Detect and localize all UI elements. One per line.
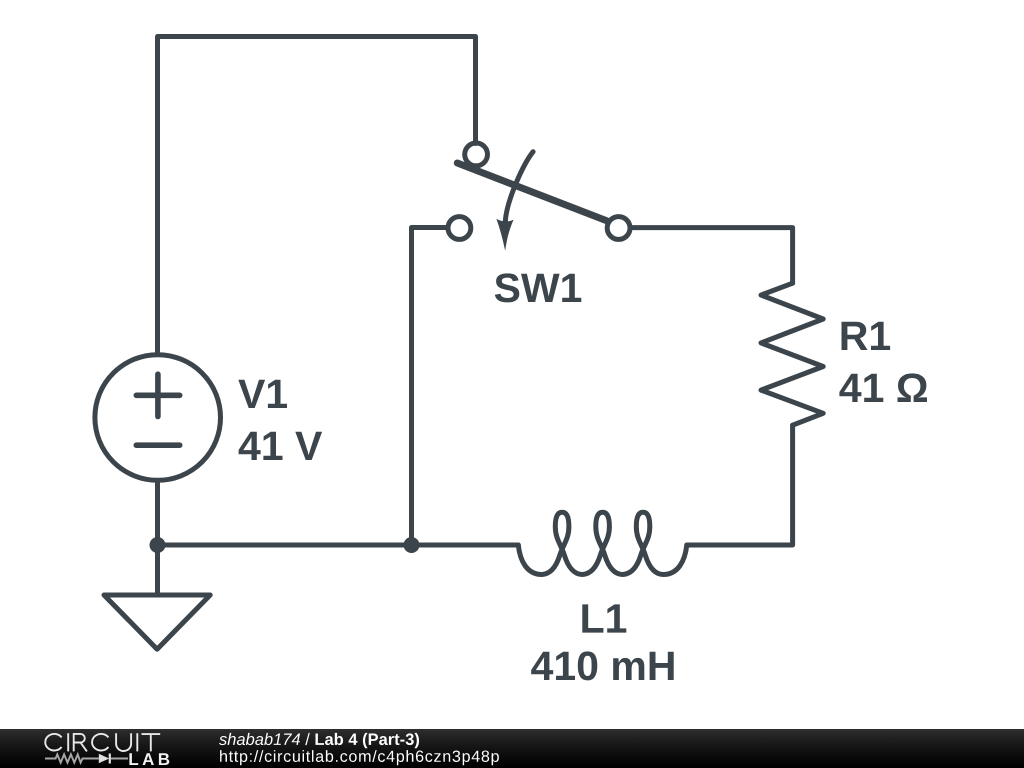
logo letter U <box>116 733 131 751</box>
wire: SW1 right terminal to R1 <box>632 228 793 284</box>
footer text: schematic url <box>220 750 499 765</box>
logo letter I (second) <box>136 733 138 751</box>
switch SW1 throw terminal circle <box>448 217 471 240</box>
label V1 <box>238 380 287 408</box>
ground stem wire <box>155 545 160 595</box>
label SW1 <box>495 273 582 302</box>
ground symbol <box>104 595 210 649</box>
wire: bottom rail from ground node to inductor <box>158 543 519 548</box>
logo letter C <box>45 734 61 751</box>
resistor R1 zigzag <box>761 283 823 425</box>
node junction at SW1 branch <box>404 537 420 553</box>
switch SW1 arrow head <box>496 219 513 251</box>
logo diode bar <box>109 754 111 764</box>
switch SW1 throw arrow arc <box>505 152 533 222</box>
V1 minus sign <box>136 442 179 448</box>
label R1 <box>842 322 891 350</box>
inductor L1 coil <box>518 512 687 574</box>
logo LAB wordmark <box>129 753 169 765</box>
label L1 <box>582 604 626 632</box>
value 410 mH <box>531 651 674 680</box>
wire: V1 bottom to ground node <box>155 481 160 546</box>
logo letter T <box>142 734 161 751</box>
wire: V1 top to SW1 common terminal <box>158 37 476 353</box>
value 41 V <box>239 432 323 460</box>
V1 plus sign <box>136 374 179 416</box>
logo letter C (second) <box>92 734 108 751</box>
logo letter I <box>67 733 69 751</box>
node junction at V1 bottom <box>150 537 166 553</box>
logo resistor zigzag <box>45 754 128 762</box>
logo diode <box>99 754 109 763</box>
switch SW1 common terminal circle <box>465 143 488 166</box>
switch SW1 blade <box>457 163 607 221</box>
value 41 Ω <box>839 373 927 402</box>
logo letter R <box>74 734 87 752</box>
voltage source V1 <box>95 355 221 481</box>
wire: node up to SW1 throw terminal <box>412 228 447 546</box>
wire: R1 bottom to inductor right lead <box>687 425 793 545</box>
footer text: user name and schematic title <box>219 733 419 748</box>
switch SW1 right terminal circle <box>607 217 630 240</box>
footer bar <box>0 729 1024 768</box>
